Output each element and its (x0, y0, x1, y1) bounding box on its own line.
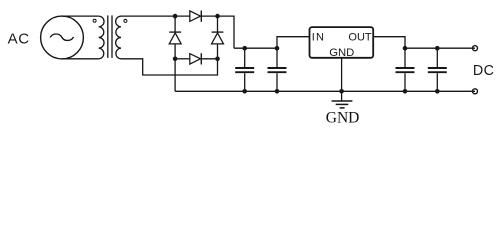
svg-text:GND: GND (326, 109, 360, 126)
junction C4 top (435, 46, 440, 51)
AC source V1 (41, 16, 84, 59)
capacitor C4 bottom lead (436, 73, 438, 91)
AC sine symbol (50, 34, 73, 40)
wire D2 cathode to node AC2 (201, 58, 217, 60)
wire regulator OUT (373, 37, 405, 49)
transformer T1 primary winding (99, 16, 104, 59)
diode D4 vertical (217, 16, 219, 32)
capacitor C2 plates (268, 67, 287, 69)
diode D2 (190, 54, 201, 65)
svg-text:OUT: OUT (348, 31, 372, 43)
terminal DC minus (473, 89, 478, 94)
capacitor C2 top lead (276, 48, 278, 67)
wire secondary bottom elbow (121, 59, 218, 75)
wire regulator GND pin (341, 58, 343, 92)
junction C2 top (275, 46, 280, 51)
ground bar 2 (336, 103, 349, 105)
primary phase dot (93, 19, 96, 22)
diode D2 cathode bar (200, 53, 202, 64)
diode D1 cathode bar (200, 11, 202, 22)
wire node minus down to bottom rail (174, 59, 176, 92)
junction C3 bottom (403, 89, 408, 94)
junction node minus (173, 57, 178, 62)
wire to regulator IN (277, 37, 310, 49)
wire plus rail right (405, 47, 475, 49)
svg-text:GND: GND (329, 47, 354, 59)
wire node minus to D2 (175, 58, 190, 60)
regulator U1 box (310, 27, 374, 58)
capacitor C1 plates (235, 67, 254, 69)
junction C2 bottom (275, 89, 280, 94)
capacitor C2 bottom lead (276, 73, 278, 91)
ground bar 1 (332, 100, 353, 102)
capacitor C4 plates (428, 67, 447, 69)
capacitor C1 top lead (244, 48, 246, 67)
transformer T1 secondary winding (116, 16, 121, 59)
junction C1 bottom (242, 89, 247, 94)
junction node AC1 (173, 14, 178, 19)
wire D3 anode down (174, 44, 176, 59)
wire D4 anode down (217, 44, 219, 59)
transformer T1 core (107, 15, 109, 58)
junction node plus top (215, 14, 220, 19)
diode D3 triangle (169, 33, 181, 44)
junction node AC2 (215, 57, 220, 62)
capacitor C1 bottom lead (244, 73, 246, 91)
diode D4 triangle (212, 33, 224, 44)
diode D3 cathode bar (169, 31, 181, 33)
secondary phase dot (124, 19, 127, 22)
capacitor C3 plates (396, 67, 415, 69)
wire D1 cathode to top-right corner (201, 16, 234, 48)
ground bar 3 (340, 107, 345, 109)
capacitor C3 top lead (404, 48, 406, 67)
junction C1 top (242, 46, 247, 51)
wire plus rail left (234, 47, 277, 49)
diode D1 (190, 11, 201, 22)
diode D4 cathode bar (212, 31, 224, 33)
bottom rail (175, 90, 475, 92)
svg-text:AC: AC (8, 31, 30, 48)
ground stem (341, 91, 343, 101)
capacitor C4 top lead (436, 48, 438, 67)
junction C4 bottom (435, 89, 440, 94)
junction GND rail (339, 89, 344, 94)
svg-text:DC: DC (473, 63, 494, 79)
diode D3 vertical (174, 16, 176, 32)
svg-text:IN: IN (312, 32, 325, 44)
capacitor C3 bottom lead (404, 73, 406, 91)
wire primary top (62, 15, 99, 17)
wire primary bottom (62, 58, 99, 60)
junction C3 top (403, 46, 408, 51)
terminal DC plus (473, 46, 478, 51)
wire secondary top to node AC1 (121, 15, 190, 17)
